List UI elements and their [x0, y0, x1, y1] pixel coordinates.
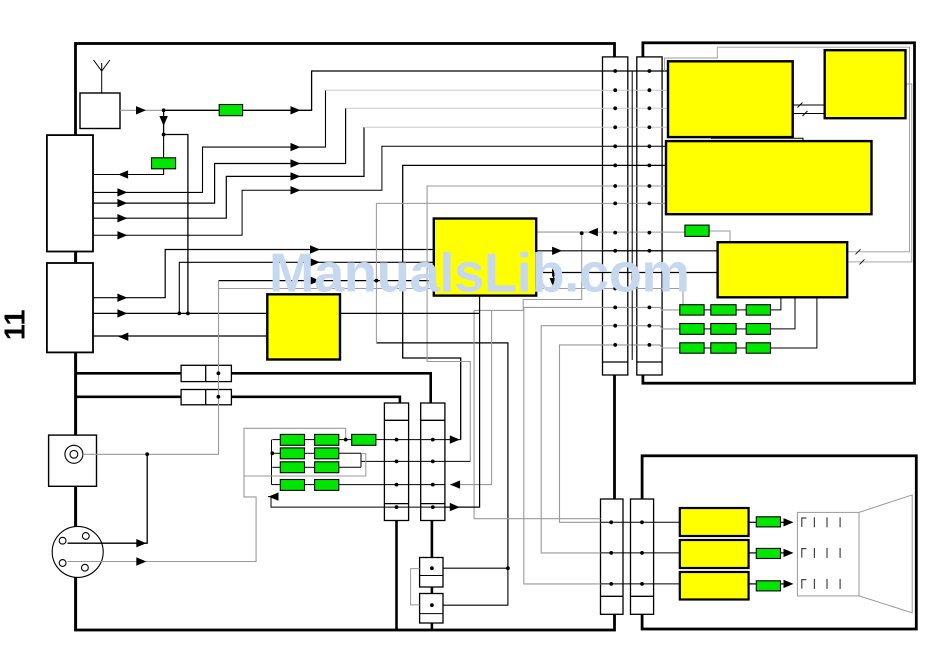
resistor R1 — [219, 105, 242, 116]
wire - Y7 to R22 to speaker — [749, 521, 757, 523]
wire - antenna box output — [120, 109, 164, 111]
junction dots — [162, 108, 166, 112]
wire - box2 out to yellow box Y5 row 250 — [93, 250, 434, 298]
relay box B — [420, 594, 443, 624]
wire - drop to col2c row 484 — [450, 310, 492, 484]
wire - grid row2 chain — [272, 452, 280, 454]
connector P5 P6 pin dots — [609, 520, 613, 524]
resistor R23 — [756, 548, 780, 558]
wire - left grid row1 links — [272, 439, 280, 441]
resistor R13 — [280, 434, 304, 445]
resistor R7 — [680, 324, 704, 335]
wire - Y3 right edge riser to Y4 — [847, 84, 912, 262]
wire - connector pair1 feed — [76, 372, 181, 375]
wire - Y9 to R24 to speaker — [749, 583, 757, 585]
wire - Y6 to Y5 riser junction — [340, 312, 480, 314]
wire - top row344 to bottom col row 522 — [560, 345, 680, 522]
link connector pair 2 — [181, 390, 231, 405]
wire A - box1 to connector row 90 into Y1 — [93, 90, 326, 192]
connector column P4 — [421, 403, 445, 521]
wire - RCA vertical to Y5 row 281 — [219, 280, 434, 282]
relay box A — [420, 558, 443, 588]
wire - top row325 to bottom col row 552 — [541, 326, 680, 553]
wire - relay box B to board bottom — [431, 623, 434, 629]
antenna — [101, 71, 103, 93]
wire - relay box A riser to top connector row 203 into Y3 — [376, 343, 508, 568]
wire - right grid row3 chain into Y4 — [704, 347, 711, 349]
wire - Y8 to R23 to speaker — [749, 552, 757, 554]
wire - Y5 bottom pin down to col2c row 507 — [445, 296, 480, 508]
yellow block Y3 — [666, 141, 872, 214]
wire - row 232 gray from R3 to arrow — [536, 231, 588, 233]
resistor R20 — [280, 480, 304, 491]
link connector pair 1 — [181, 365, 231, 381]
wire - R3 to Y4 top — [709, 231, 730, 242]
wire - connector crossing rows — [603, 250, 663, 252]
wire - col2c bottom to relay box A — [431, 521, 434, 558]
wire - Y5 to Y4 row 272 — [536, 272, 717, 274]
connector P3 P4 pin dots — [395, 438, 399, 442]
pin jog marks — [798, 103, 803, 108]
wire - box1 to box2 stub — [75, 252, 78, 264]
wire - col row507 left reach with arrow — [268, 497, 384, 508]
resistor R9 — [746, 324, 770, 335]
svg-text:ManualsLib.com: ManualsLib.com — [269, 243, 690, 304]
wire - bottom cols row 586 to Y9 — [601, 583, 680, 585]
resistor R16 — [280, 448, 304, 459]
wire - pair2 to connector col1c top — [231, 397, 400, 403]
wire - connector pair2 feed — [76, 395, 181, 398]
wire - col1c bottom to board bottom — [395, 521, 398, 630]
antenna input box — [80, 93, 120, 129]
tuner box1 — [47, 135, 93, 251]
wire between P1 P2 — [631, 71, 633, 360]
yellow block Y9 — [680, 572, 749, 600]
connector column P3 — [384, 403, 408, 521]
wire - right grid row1 chain into Y4 — [704, 309, 711, 311]
resistor R18 — [280, 462, 304, 473]
wire - node to vertical bus x188 — [164, 135, 188, 314]
DIN connector — [52, 526, 103, 577]
wire - antenna line through R1 to connector — [164, 71, 668, 110]
wire - stub with down arrow — [553, 273, 555, 288]
svg-text:11: 11 — [0, 310, 31, 341]
wire - box2 return into Y6 — [93, 335, 266, 337]
wire - under Y1 link to Y3 — [711, 138, 803, 141]
resistor R3 — [685, 225, 709, 236]
wire - Y5 row 262 from bus tap — [179, 262, 433, 313]
wire - node down to resistor R2 — [163, 135, 165, 159]
wire - grid row2 riser to top connector row 186 into Y3 — [427, 186, 666, 461]
resistor R22 — [756, 517, 780, 527]
IF box2 — [47, 263, 93, 352]
wire - box2 through bus junction into Y6 — [93, 312, 266, 314]
yellow block Y7 — [680, 508, 749, 536]
wire - top row307 to bottom col row 584 — [524, 307, 680, 584]
connector column P5 — [601, 499, 624, 614]
main tuner board outline — [76, 44, 615, 631]
wire - junction down into relay box B — [443, 568, 508, 605]
wire - col2c row461 out to riser — [445, 460, 470, 462]
yellow block Y2 — [825, 50, 906, 118]
wire - grid row1 riser to top connector row 165 into Y3 — [403, 165, 666, 439]
wire B - box1 to connector row 108 into Y1 — [93, 108, 346, 203]
resistor R2 — [152, 158, 176, 169]
resistor R11 — [711, 343, 736, 353]
wire - grid left tie — [271, 440, 273, 485]
resistor R12 — [746, 343, 770, 353]
wire - pair1 to connector col2c top — [231, 373, 430, 403]
bottom-right output board outline — [642, 456, 916, 629]
wire - top connector row 232 drop chain — [474, 233, 582, 310]
resistor R10 — [680, 343, 704, 353]
wire C - box1 to connector row 127 into Y1 — [93, 127, 364, 218]
wire - grid row3 chain — [272, 466, 280, 468]
wire - drop to bottom col row 519 — [474, 310, 600, 518]
wire - rows across col1c col2c — [384, 439, 445, 441]
wire - bottom cols row 522 to Y7 — [601, 521, 680, 523]
wire - junction drop to node — [163, 110, 165, 134]
wire - DIN pin to junction riser — [68, 454, 148, 543]
wire - right grid row2 chain into Y4 — [704, 328, 711, 330]
wire - Y1 to Y2 links — [793, 104, 825, 106]
wire - col2c row439 out to riser — [445, 439, 461, 441]
wire - Y5 to Y4 row 250 — [536, 250, 717, 252]
resistor R15 — [352, 434, 376, 445]
wire - R2 to box1 arrow — [93, 169, 164, 175]
yellow block Y8 — [680, 540, 749, 568]
resistor R17 — [315, 448, 339, 459]
relay box pin dots — [430, 566, 434, 570]
wire - left vertical bus from box2 to DIN — [75, 352, 78, 630]
yellow block Y4 — [718, 242, 848, 297]
right amplifier board outline — [643, 43, 915, 383]
resistor R8 — [711, 324, 736, 335]
wire - gray loop bottom to row2 — [244, 454, 366, 476]
yellow block Y1 — [668, 61, 793, 137]
resistor R21 — [315, 480, 339, 491]
wire - gray row 289 across — [219, 289, 684, 305]
wire - DIN pin 2 gray to grid loop — [68, 428, 346, 561]
wire - row71 over-the-top riser to Y4 — [665, 47, 910, 252]
arrows — [136, 106, 146, 114]
connector column P2 — [637, 57, 662, 375]
yellow block Y6 — [267, 294, 340, 359]
resistor R24 — [756, 581, 780, 591]
resistor R5 — [711, 305, 736, 315]
speaker — [797, 512, 859, 596]
wire - relay box A to box B — [431, 587, 434, 594]
resistor R14 — [315, 434, 339, 445]
wire - grid row4 chain — [272, 484, 281, 486]
resistor R19 — [315, 462, 339, 473]
RCA jack box — [49, 435, 97, 486]
yellow block Y5 — [434, 219, 536, 296]
wire - bottom cols row 554 to Y8 — [601, 552, 680, 554]
connector column P6 — [631, 499, 654, 614]
wire - RCA jack to vertical riser — [83, 281, 219, 455]
wire - relay gray loop left — [411, 569, 420, 605]
connector P1 P2 pin dots — [613, 69, 617, 73]
wire D - box1 to connector row 146 into Y3 — [93, 146, 666, 235]
connector column P1 — [603, 57, 628, 375]
resistor R4 — [680, 305, 704, 315]
resistor R6 — [746, 305, 770, 315]
wire - relay box A link to junction — [443, 567, 508, 569]
